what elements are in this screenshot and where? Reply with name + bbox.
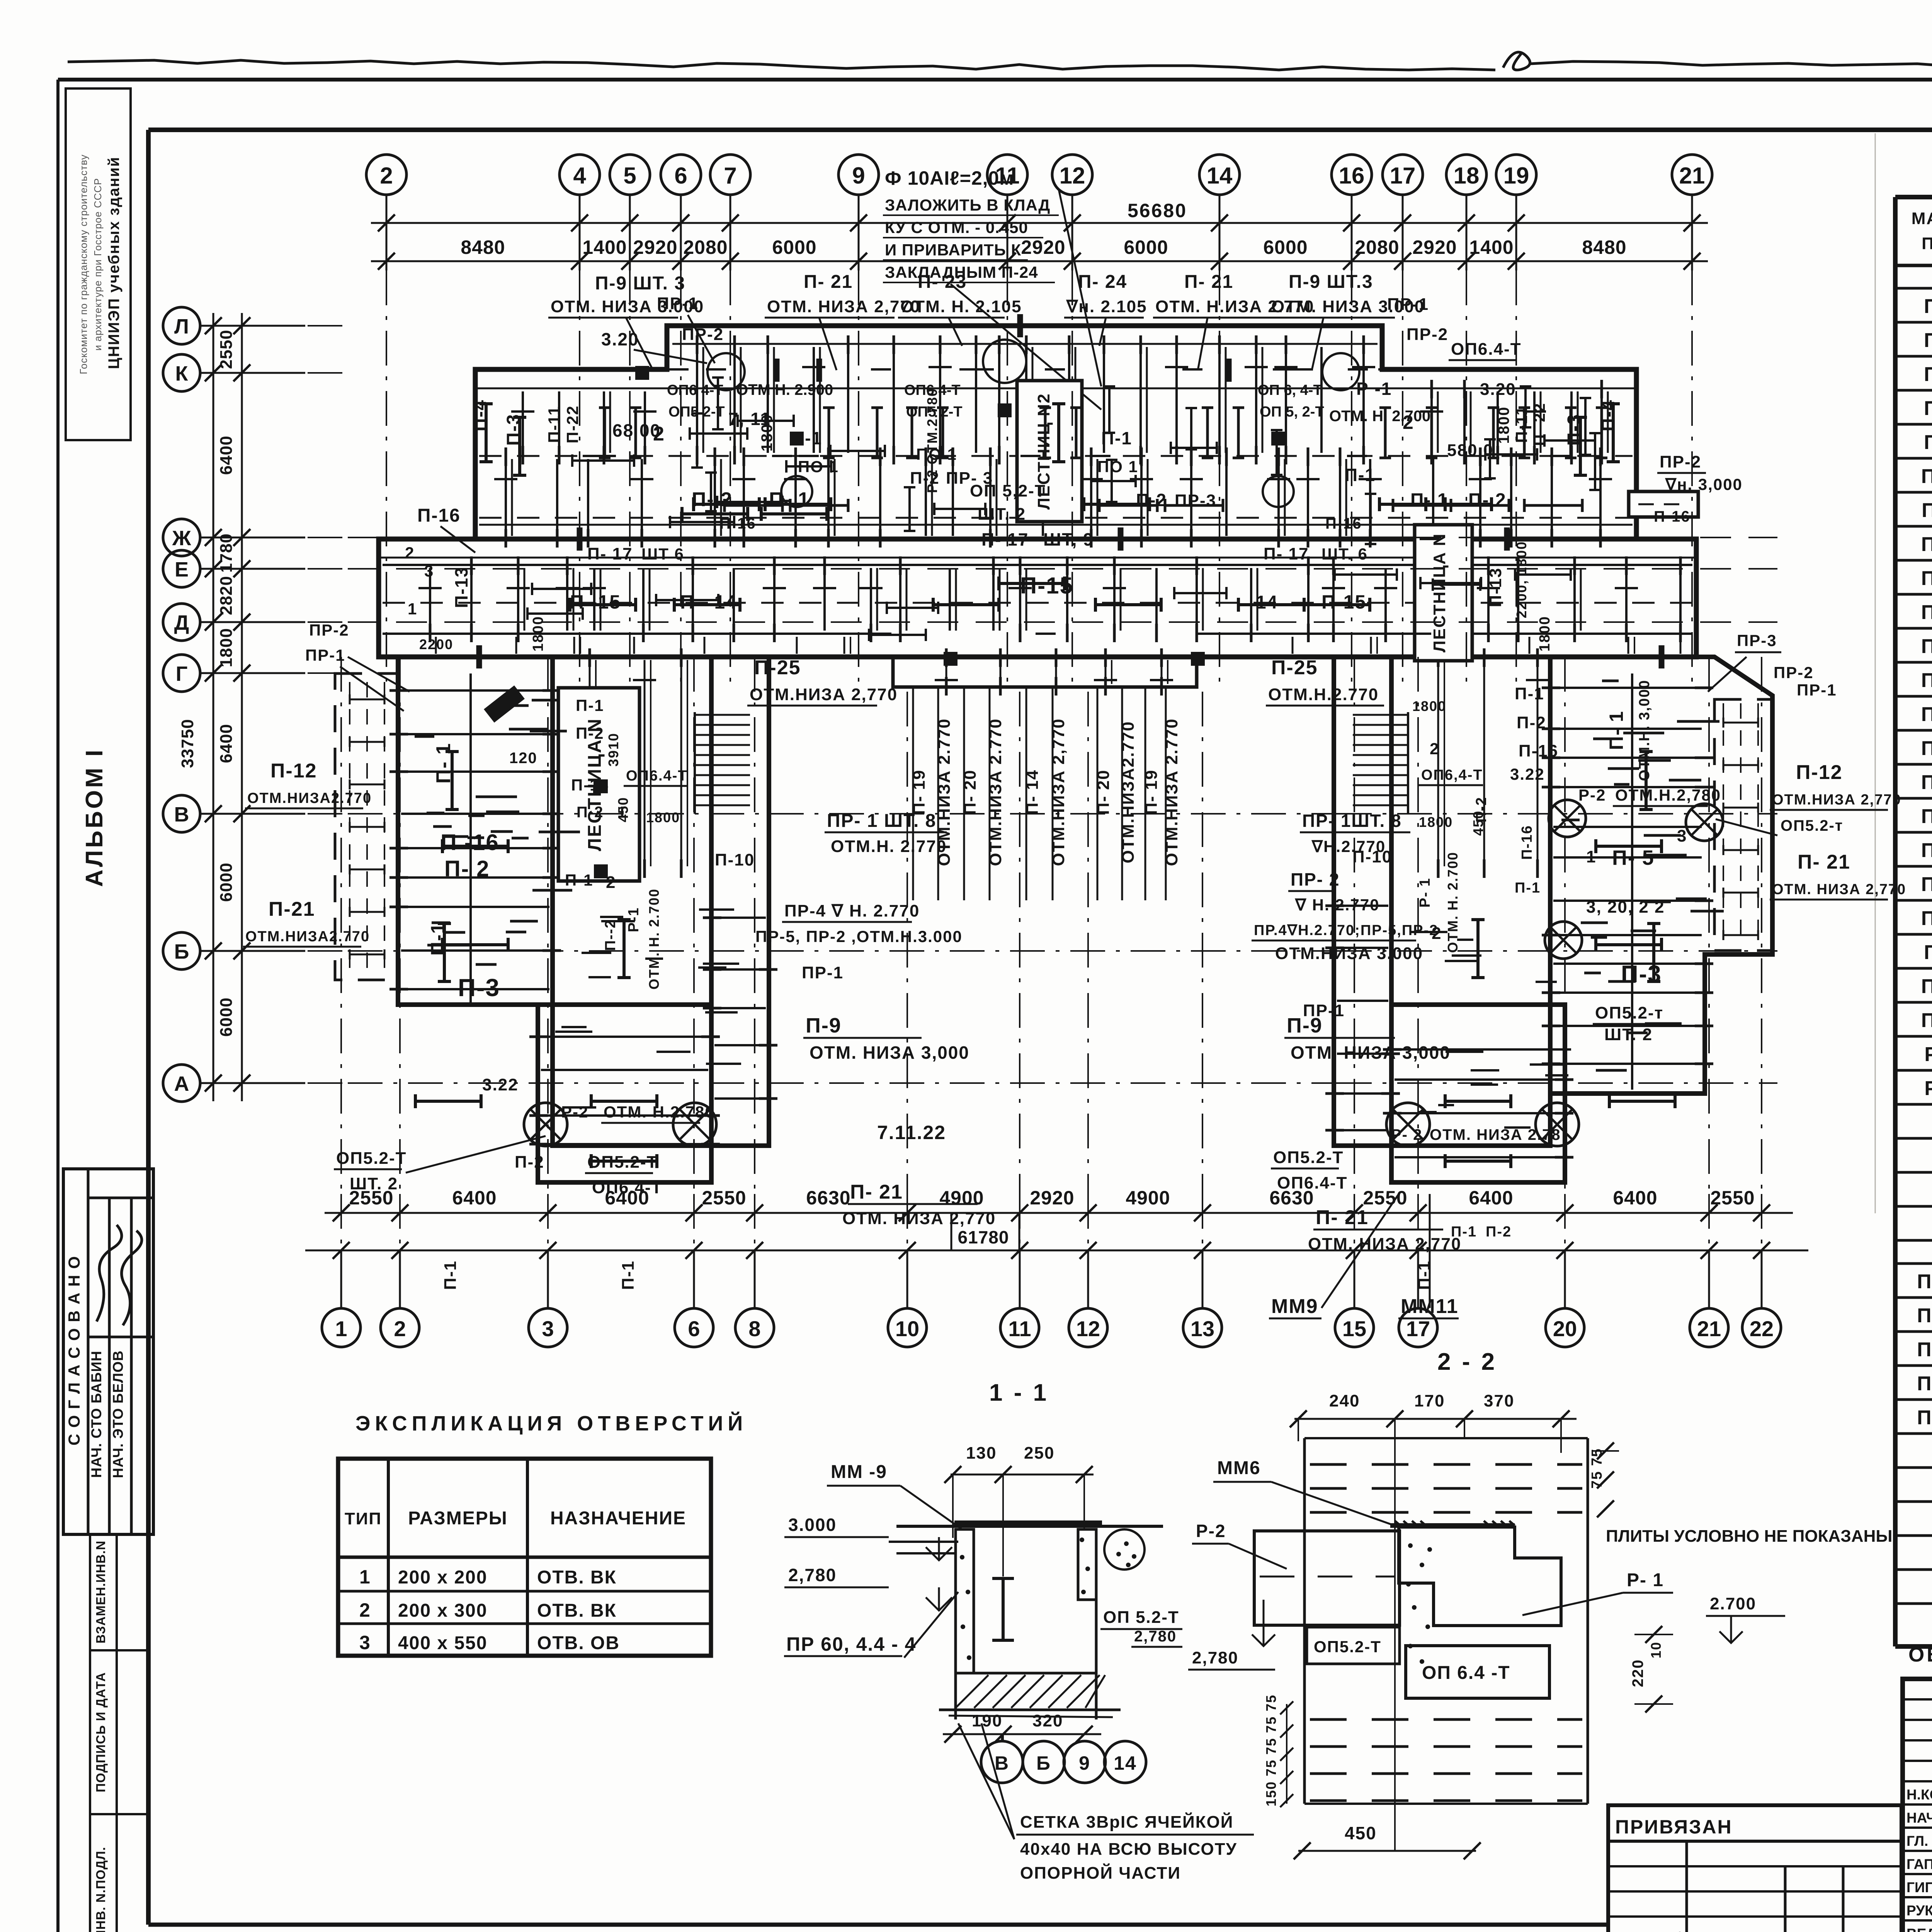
svg-text:5: 5 (623, 163, 636, 189)
svg-text:П- 2: П- 2 (1468, 490, 1507, 510)
svg-text:П- 17: П- 17 (981, 529, 1029, 549)
svg-text:8480: 8480 (461, 236, 505, 258)
svg-text:2: 2 (1403, 412, 1414, 433)
svg-text:3.22: 3.22 (1510, 765, 1545, 783)
svg-text:П-3: П-3 (1621, 961, 1662, 988)
svg-text:Р- 2: Р- 2 (1391, 1126, 1422, 1143)
svg-text:РАЗМЕРЫ: РАЗМЕРЫ (408, 1508, 508, 1529)
svg-text:6000: 6000 (1124, 236, 1168, 258)
svg-text:ОП5.2-Т: ОП5.2-Т (1273, 1148, 1344, 1167)
svg-text:П-13: П-13 (1921, 567, 1932, 590)
svg-text:2920: 2920 (633, 236, 677, 258)
svg-text:ШТ. 2: ШТ. 2 (978, 505, 1026, 524)
svg-text:1800: 1800 (1537, 616, 1553, 652)
svg-text:П-23: П-23 (1921, 907, 1932, 930)
svg-text:2920: 2920 (1021, 236, 1065, 258)
svg-text:ПР- 2: ПР- 2 (1291, 869, 1340, 889)
svg-text:6000: 6000 (772, 236, 816, 258)
svg-text:Г: Г (176, 662, 188, 685)
svg-text:2920: 2920 (1412, 236, 1457, 258)
svg-text:ОТМ.НИЗА 2,770: ОТМ.НИЗА 2,770 (1772, 792, 1901, 808)
svg-text:П-11: П-11 (1512, 406, 1531, 443)
svg-text:1400: 1400 (1469, 236, 1514, 258)
svg-text:П-1: П-1 (791, 428, 822, 448)
svg-text:ОП 5, 2-Т: ОП 5, 2-Т (1260, 404, 1324, 420)
svg-text:2200, 1800: 2200, 1800 (1514, 541, 1529, 618)
svg-text:Б: Б (1036, 1752, 1051, 1774)
svg-text:200 х 300: 200 х 300 (398, 1600, 488, 1621)
svg-text:40х40 НА ВСЮ ВЫСОТУ: 40х40 НА ВСЮ ВЫСОТУ (1020, 1840, 1237, 1859)
svg-text:ШТ. 6: ШТ. 6 (1321, 545, 1368, 563)
svg-text:450: 450 (1345, 1823, 1377, 1843)
svg-text:П-9 ШТ.3: П-9 ШТ.3 (1289, 272, 1373, 292)
svg-text:Госкомитет по гражданскому стр: Госкомитет по гражданскому строительству (78, 154, 89, 374)
svg-text:П-4: П-4 (1598, 399, 1619, 431)
svg-text:ЗАЛОЖИТЬ В КЛАД: ЗАЛОЖИТЬ В КЛАД (885, 196, 1050, 214)
svg-text:П- 1: П- 1 (1605, 711, 1627, 750)
svg-text:7.11.22: 7.11.22 (877, 1122, 946, 1143)
svg-text:6400: 6400 (1469, 1187, 1513, 1209)
svg-text:Ф 10АIℓ=2,0м: Ф 10АIℓ=2,0м (885, 167, 1014, 189)
svg-text:П-21: П-21 (1921, 839, 1932, 862)
svg-text:14: 14 (1114, 1752, 1137, 1774)
svg-text:П-25: П-25 (754, 656, 801, 679)
svg-text:Р -1: Р -1 (1356, 379, 1392, 399)
svg-text:П- 5: П- 5 (1612, 846, 1655, 869)
svg-text:П- 17: П- 17 (587, 544, 633, 563)
svg-text:П- 2: П- 2 (444, 856, 490, 881)
svg-text:ПР-1: ПР-1 (1387, 295, 1429, 314)
svg-text:ПР.4∇Н.2.770;ПР-5,ПР-2: ПР.4∇Н.2.770;ПР-5,ПР-2 (1254, 922, 1438, 939)
svg-text:ОПОРНОЙ ЧАСТИ: ОПОРНОЙ ЧАСТИ (1020, 1863, 1181, 1883)
svg-text:ПР- 3: ПР- 3 (1917, 1338, 1932, 1361)
svg-text:ШТ 6: ШТ 6 (641, 545, 684, 563)
svg-text:П-14: П-14 (1921, 601, 1932, 624)
svg-text:П-1: П-1 (619, 1260, 638, 1290)
svg-text:ММ ‑9: ММ ‑9 (831, 1462, 887, 1482)
svg-text:П-20: П-20 (1921, 805, 1932, 828)
svg-text:П- 21: П- 21 (804, 272, 853, 292)
svg-text:8480: 8480 (1582, 236, 1626, 258)
svg-text:15: 15 (1342, 1316, 1366, 1341)
svg-text:1800: 1800 (646, 810, 680, 825)
svg-text:16: 16 (1339, 163, 1365, 189)
svg-text:П-16: П-16 (719, 515, 756, 532)
svg-text:21: 21 (1679, 163, 1705, 189)
svg-text:2550: 2550 (702, 1187, 746, 1209)
svg-text:ОП6 4-Т: ОП6 4-Т (667, 382, 723, 398)
svg-text:П-16: П-16 (417, 505, 461, 526)
svg-text:ОТМ.Н. 2.770: ОТМ.Н. 2.770 (831, 837, 947, 856)
svg-text:4: 4 (573, 163, 586, 189)
svg-text:ОТВ. ВК: ОТВ. ВК (537, 1567, 617, 1588)
svg-text:Е: Е (175, 558, 189, 581)
svg-text:6000: 6000 (217, 997, 236, 1037)
svg-text:ОТМ.НИЗА2.770: ОТМ.НИЗА2.770 (245, 929, 370, 945)
svg-text:1: 1 (359, 1566, 371, 1588)
svg-text:П- 21: П- 21 (1184, 272, 1233, 292)
svg-text:ИНВ. N°: ИНВ. N° (1613, 1929, 1684, 1932)
svg-text:2820: 2820 (217, 576, 236, 615)
svg-text:11: 11 (1008, 1316, 1031, 1341)
svg-text:П- 21: П- 21 (850, 1181, 903, 1203)
svg-text:56680: 56680 (1128, 200, 1187, 221)
svg-text:ШТ. 2: ШТ. 2 (1604, 1025, 1653, 1044)
svg-text:1800: 1800 (1412, 698, 1446, 714)
svg-text:450: 450 (1470, 810, 1486, 836)
svg-text:ММ9: ММ9 (1271, 1295, 1318, 1318)
svg-text:130: 130 (966, 1444, 997, 1463)
svg-text:61780: 61780 (958, 1227, 1009, 1247)
svg-text:ОП5 2-Т: ОП5 2-Т (668, 404, 725, 420)
svg-text:П-22: П-22 (1921, 873, 1932, 896)
svg-text:РУК.ГР.АРХ: РУК.ГР.АРХ (1906, 1903, 1932, 1918)
svg-text:П-19: П-19 (1921, 771, 1932, 794)
svg-text:ОТМ.Н.2.770: ОТМ.Н.2.770 (1268, 685, 1379, 704)
svg-text:1: 1 (335, 1316, 347, 1341)
svg-text:6000: 6000 (1263, 236, 1308, 258)
svg-text:1800: 1800 (1419, 814, 1453, 830)
svg-text:12: 12 (1076, 1316, 1100, 1341)
svg-text:ПР-2: ПР-2 (1406, 325, 1448, 344)
svg-text:6000: 6000 (217, 862, 236, 902)
svg-text:22: 22 (1750, 1316, 1774, 1341)
svg-text:ПР-5, ПР-2 ,ОТМ.Н.3.000: ПР-5, ПР-2 ,ОТМ.Н.3.000 (755, 927, 963, 946)
svg-text:200 х 200: 200 х 200 (398, 1567, 488, 1588)
svg-text:ОТМ. НИЗА 3,000: ОТМ. НИЗА 3,000 (810, 1043, 969, 1063)
svg-text:П-1: П-1 (1515, 684, 1544, 703)
svg-text:П- 2: П- 2 (692, 488, 733, 511)
svg-text:и архитектуре при Госстрое ССС: и архитектуре при Госстрое СССР (92, 178, 104, 351)
svg-text:2: 2 (653, 423, 665, 445)
svg-text:П-1: П-1 (1345, 465, 1376, 485)
svg-text:П-10: П-10 (715, 850, 755, 869)
svg-text:2: 2 (394, 1316, 406, 1341)
svg-text:580 0: 580 0 (1447, 441, 1493, 460)
svg-text:4900: 4900 (1126, 1187, 1170, 1209)
svg-text:10: 10 (895, 1316, 919, 1341)
svg-text:ПР-2: ПР-2 (1660, 452, 1701, 471)
svg-text:∇ Н. 2.770: ∇ Н. 2.770 (1294, 896, 1380, 914)
svg-text:П--2: П--2 (602, 919, 619, 951)
svg-text:ВЕД. ИНЖ.: ВЕД. ИНЖ. (1906, 1926, 1932, 1932)
svg-text:2: 2 (606, 873, 616, 892)
svg-text:ВЗАМЕН.ИНВ.N: ВЗАМЕН.ИНВ.N (94, 1541, 108, 1644)
svg-text:С О Г Л А С О В А Н О: С О Г Л А С О В А Н О (65, 1255, 83, 1446)
svg-text:П-1: П-1 (565, 871, 594, 889)
svg-text:В: В (174, 803, 189, 826)
svg-text:Р-2: Р-2 (561, 1103, 588, 1121)
svg-text:6400: 6400 (1613, 1187, 1657, 1209)
svg-text:4900: 4900 (939, 1187, 984, 1209)
svg-text:ИНВ. N.ПОДЛ.: ИНВ. N.ПОДЛ. (94, 1847, 108, 1932)
svg-text:П-16: П-16 (1921, 669, 1932, 692)
svg-text:П- 1: П- 1 (432, 743, 455, 784)
svg-text:П-2: П-2 (910, 469, 940, 488)
svg-text:ОП6.4-Т: ОП6.4-Т (1451, 340, 1522, 359)
svg-text:П-1: П-1 (1415, 1260, 1434, 1290)
svg-text:П- 3: П- 3 (1924, 363, 1932, 386)
svg-text:ОТМ. Н.2.780: ОТМ. Н.2.780 (604, 1103, 715, 1121)
svg-text:Л: Л (174, 315, 189, 338)
svg-text:НАЧ.АПМ.1: НАЧ.АПМ.1 (1906, 1810, 1932, 1826)
svg-text:220: 220 (1629, 1659, 1646, 1687)
svg-text:2: 2 (359, 1599, 371, 1621)
svg-text:ПОДПИСЬ И ДАТА: ПОДПИСЬ И ДАТА (94, 1672, 108, 1792)
svg-text:Р-2: Р-2 (1196, 1521, 1226, 1541)
svg-text:П- 1: П- 1 (769, 488, 810, 511)
svg-text:∇Н.2.770: ∇Н.2.770 (1311, 837, 1386, 855)
svg-text:ТИП: ТИП (345, 1509, 382, 1528)
svg-text:П-9: П-9 (806, 1014, 842, 1037)
svg-text:10: 10 (1648, 1641, 1664, 1658)
svg-text:П-1: П-1 (1515, 880, 1541, 896)
svg-text:14: 14 (1256, 592, 1278, 613)
svg-text:ОТМ. Н. 2.700: ОТМ. Н. 2.700 (646, 888, 662, 990)
svg-text:ПР-4 ∇ Н. 2.770: ПР-4 ∇ Н. 2.770 (784, 901, 920, 920)
svg-text:ОТВ. ВК: ОТВ. ВК (537, 1600, 617, 1621)
svg-text:П-1: П-1 (1101, 428, 1132, 448)
svg-text:Н.КОНТР: Н.КОНТР (1906, 1787, 1932, 1803)
svg-text:П-18: П-18 (1921, 737, 1932, 760)
svg-text:Р- 2: Р- 2 (1924, 1077, 1932, 1100)
svg-text:СЕТКА 3ВрIС ЯЧЕЙКОЙ: СЕТКА 3ВрIС ЯЧЕЙКОЙ (1020, 1812, 1233, 1832)
svg-text:П-2: П-2 (515, 1153, 544, 1172)
svg-text:ОТМ.НИЗА2.770: ОТМ.НИЗА2.770 (247, 790, 372, 806)
svg-text:П-1: П-1 (1451, 1224, 1477, 1240)
svg-text:А: А (174, 1072, 189, 1095)
svg-text:ОТМ. НИЗА 2,770: ОТМ. НИЗА 2,770 (842, 1209, 996, 1228)
svg-text:19: 19 (1503, 163, 1529, 189)
svg-text:П-24: П-24 (1921, 975, 1932, 998)
svg-text:3: 3 (424, 562, 434, 580)
svg-text:320: 320 (1032, 1711, 1063, 1730)
svg-text:ОП5.2-т: ОП5.2-т (1595, 1003, 1663, 1022)
svg-text:18: 18 (1454, 163, 1480, 189)
svg-text:ПО 1: ПО 1 (916, 445, 957, 463)
svg-text:6400: 6400 (217, 435, 236, 475)
svg-text:П-2: П-2 (577, 804, 604, 821)
svg-text:3: 3 (359, 1632, 371, 1653)
svg-text:6: 6 (688, 1316, 700, 1341)
svg-text:Р-1: Р-1 (626, 907, 642, 932)
svg-text:33750: 33750 (178, 719, 197, 768)
svg-text:3: 3 (542, 1316, 554, 1341)
svg-text:П-12: П-12 (1796, 761, 1843, 784)
svg-text:190: 190 (972, 1711, 1002, 1730)
svg-text:Р-2: Р-2 (1578, 786, 1606, 804)
svg-text:ОТМ.Н. 3,000: ОТМ.Н. 3,000 (1636, 680, 1653, 781)
svg-text:НАЗНАЧЕНИЕ: НАЗНАЧЕНИЕ (550, 1508, 686, 1529)
svg-text:НАЧ. ЭТО БЕЛОВ: НАЧ. ЭТО БЕЛОВ (110, 1350, 126, 1478)
svg-text:3.22: 3.22 (482, 1075, 519, 1094)
svg-text:П- 24: П- 24 (1078, 272, 1127, 292)
svg-text:ОП5.2-Т: ОП5.2-Т (336, 1149, 407, 1168)
svg-text:2080: 2080 (1355, 236, 1399, 258)
svg-text:14: 14 (1207, 163, 1233, 189)
svg-text:ПР-1: ПР-1 (1797, 681, 1837, 699)
svg-text:ПР- 1: ПР- 1 (1917, 1270, 1932, 1293)
svg-text:ОП6.4-Т: ОП6.4-Т (592, 1178, 663, 1197)
svg-text:8: 8 (748, 1316, 760, 1341)
svg-text:П-2: П-2 (1517, 713, 1546, 732)
svg-text:ПРИВЯЗАН: ПРИВЯЗАН (1615, 1816, 1733, 1838)
svg-text:П-16: П-16 (1654, 508, 1690, 525)
svg-text:П-25: П-25 (1921, 1009, 1932, 1032)
svg-text:370: 370 (1484, 1391, 1514, 1410)
svg-text:В: В (995, 1752, 1009, 1774)
svg-text:2920: 2920 (1030, 1187, 1074, 1209)
svg-text:1: 1 (1586, 847, 1596, 866)
svg-text:150 75 75 75 75: 150 75 75 75 75 (1263, 1694, 1279, 1806)
svg-text:ПР-3: ПР-3 (1175, 491, 1216, 510)
svg-text:Р- 1: Р- 1 (1924, 1043, 1932, 1066)
svg-text:240: 240 (1329, 1391, 1360, 1410)
svg-text:ОТМ Н. 2.900: ОТМ Н. 2.900 (736, 381, 833, 398)
svg-text:21: 21 (1697, 1316, 1721, 1341)
svg-text:П- 21: П- 21 (1798, 851, 1850, 873)
svg-text:ОП 6.4 -Т: ОП 6.4 -Т (1422, 1663, 1510, 1683)
svg-text:ОТМ. НИЗА 2,770: ОТМ. НИЗА 2,770 (1772, 881, 1906, 898)
svg-text:17: 17 (1406, 1316, 1430, 1341)
svg-text:П- 23: П- 23 (918, 272, 967, 292)
svg-text:ПР- 4: ПР- 4 (1917, 1372, 1932, 1395)
svg-text:3.20: 3.20 (1480, 380, 1516, 399)
svg-text:3910: 3910 (605, 733, 621, 767)
svg-text:П- 5: П- 5 (1924, 941, 1932, 964)
svg-text:П-16: П-16 (571, 776, 609, 794)
svg-text:П- 2: П- 2 (1924, 329, 1932, 352)
svg-text:И ПРИВАРИТЬ К: И ПРИВАРИТЬ К (885, 241, 1021, 259)
svg-text:П-1: П-1 (441, 1260, 460, 1290)
svg-text:∇н. 2.105: ∇н. 2.105 (1066, 297, 1147, 316)
svg-text:1780: 1780 (217, 533, 236, 573)
svg-text:ЛЕСТНИЦА N: ЛЕСТНИЦА N (1430, 533, 1449, 652)
svg-text:ШТ. 2: ШТ. 2 (350, 1174, 398, 1193)
svg-text:17: 17 (1390, 163, 1416, 189)
svg-text:ОТМ. Н. 2.700: ОТМ. Н. 2.700 (1445, 852, 1461, 953)
svg-text:ОТМ.Н.2,780: ОТМ.Н.2,780 (1615, 786, 1721, 804)
svg-text:П -15: П -15 (570, 591, 621, 613)
svg-text:2,780: 2,780 (1134, 1628, 1177, 1645)
svg-text:П-3: П-3 (503, 413, 524, 446)
svg-text:П- 21: П- 21 (1316, 1206, 1369, 1229)
svg-text:13: 13 (1190, 1316, 1214, 1341)
svg-text:П-21: П-21 (269, 898, 315, 920)
svg-text:ПР-1: ПР-1 (305, 646, 345, 664)
svg-text:П-16: П-16 (1519, 825, 1535, 860)
svg-text:1800: 1800 (1495, 406, 1512, 444)
svg-text:6630: 6630 (806, 1187, 850, 1209)
svg-text:П-22: П-22 (563, 405, 582, 444)
svg-text:2: 2 (380, 163, 393, 189)
svg-text:1 - 1: 1 - 1 (989, 1379, 1049, 1406)
svg-text:П-3: П-3 (1564, 413, 1585, 446)
svg-text:ПР-1: ПР-1 (802, 963, 844, 982)
svg-text:К: К (175, 362, 189, 385)
svg-text:ОТВ. ОВ: ОТВ. ОВ (537, 1633, 620, 1653)
svg-text:П-13: П-13 (1486, 567, 1505, 607)
svg-text:2080: 2080 (683, 236, 728, 258)
svg-text:ПР-1: ПР-1 (657, 294, 699, 313)
svg-text:Ж: Ж (172, 527, 192, 550)
svg-text:ГАП: ГАП (1906, 1856, 1932, 1872)
svg-text:ШТ, 9: ШТ, 9 (1043, 529, 1094, 549)
svg-text:П-9 ШТ. 3: П-9 ШТ. 3 (595, 273, 685, 294)
svg-text:ЦНИИЭП учебных зданий: ЦНИИЭП учебных зданий (105, 156, 122, 369)
svg-text:П- 17: П- 17 (1264, 544, 1309, 563)
svg-text:7: 7 (724, 163, 736, 189)
svg-text:ОТМ. Н. 2.700: ОТМ. Н. 2.700 (1329, 408, 1430, 425)
svg-text:П-11: П-11 (1922, 499, 1932, 522)
svg-text:ПО 1: ПО 1 (1097, 457, 1138, 476)
svg-text:П- 1: П- 1 (1410, 490, 1449, 510)
svg-text:1800: 1800 (759, 414, 776, 452)
svg-text:КУ С ОТМ. - 0.450: КУ С ОТМ. - 0.450 (885, 218, 1028, 236)
svg-text:П-12: П-12 (270, 760, 317, 782)
svg-text:ПР-3: ПР-3 (1737, 631, 1777, 650)
svg-text:П- 1: П- 1 (1924, 295, 1932, 318)
svg-text:ММ6: ММ6 (1217, 1458, 1261, 1478)
svg-text:ОП 6, 4-Т: ОП 6, 4-Т (1258, 382, 1322, 398)
svg-text:2 - 2: 2 - 2 (1437, 1349, 1497, 1375)
svg-text:2,780: 2,780 (1192, 1648, 1238, 1667)
svg-text:9: 9 (1079, 1752, 1090, 1774)
svg-text:П-1: П-1 (427, 922, 449, 956)
svg-text:2.700: 2.700 (1710, 1594, 1756, 1613)
svg-text:ГИП: ГИП (1906, 1879, 1932, 1895)
svg-text:3.000: 3.000 (788, 1515, 837, 1535)
svg-text:1: 1 (408, 600, 417, 618)
svg-text:20: 20 (1553, 1316, 1577, 1341)
svg-text:ОТМ. НИЗА 2,770: ОТМ. НИЗА 2,770 (1308, 1235, 1461, 1253)
svg-text:ОП5.2-т: ОП5.2-т (1781, 817, 1843, 834)
svg-text:П-16: П-16 (1325, 515, 1362, 532)
svg-text:2200: 2200 (419, 636, 453, 652)
svg-text:П-4: П-4 (470, 399, 490, 431)
svg-text:ПР 60, 4.4 - 4: ПР 60, 4.4 - 4 (786, 1633, 916, 1655)
svg-text:∇н. 3,000: ∇н. 3,000 (1665, 475, 1743, 493)
svg-text:П-9: П-9 (1287, 1014, 1323, 1037)
svg-text:ПР- 1 ШТ. 8: ПР- 1 ШТ. 8 (827, 811, 936, 831)
svg-text:Д: Д (174, 611, 189, 634)
svg-text:ОТМ. НИЗА 2,770: ОТМ. НИЗА 2,770 (767, 297, 920, 316)
svg-text:ПР-2: ПР-2 (1774, 663, 1814, 682)
svg-text:ПО 1: ПО 1 (798, 457, 839, 476)
svg-text:МАРКА: МАРКА (1912, 209, 1932, 228)
svg-text:6: 6 (674, 163, 687, 189)
svg-text:450: 450 (615, 797, 631, 822)
svg-text:П-25: П-25 (1271, 656, 1318, 679)
svg-text:ОП6.4-Т: ОП6.4-Т (1277, 1173, 1348, 1192)
svg-text:ОТМ. Н. 2.105: ОТМ. Н. 2.105 (900, 297, 1022, 316)
svg-text:ОП 5.2-Т: ОП 5.2-Т (1103, 1608, 1179, 1627)
svg-text:170: 170 (1414, 1391, 1445, 1410)
svg-text:2: 2 (405, 544, 415, 562)
svg-text:П-3: П-3 (458, 974, 500, 1002)
svg-text:П- 9: П- 9 (1924, 431, 1932, 454)
svg-text:ОП5.2-Т: ОП5.2-Т (1314, 1638, 1381, 1656)
svg-text:250: 250 (1024, 1444, 1054, 1463)
svg-text:ПР- 1ШТ. 8: ПР- 1ШТ. 8 (1302, 811, 1402, 831)
svg-text:П -16: П -16 (440, 830, 499, 855)
svg-text:П-15: П-15 (1020, 573, 1073, 599)
svg-text:ОП5.2-Т: ОП5.2-Т (587, 1153, 658, 1172)
svg-text:ПР- 2: ПР- 2 (1917, 1304, 1932, 1327)
svg-text:П-2: П-2 (1486, 1224, 1512, 1240)
svg-text:12: 12 (1060, 163, 1085, 189)
svg-text:П-10: П-10 (1921, 465, 1932, 488)
